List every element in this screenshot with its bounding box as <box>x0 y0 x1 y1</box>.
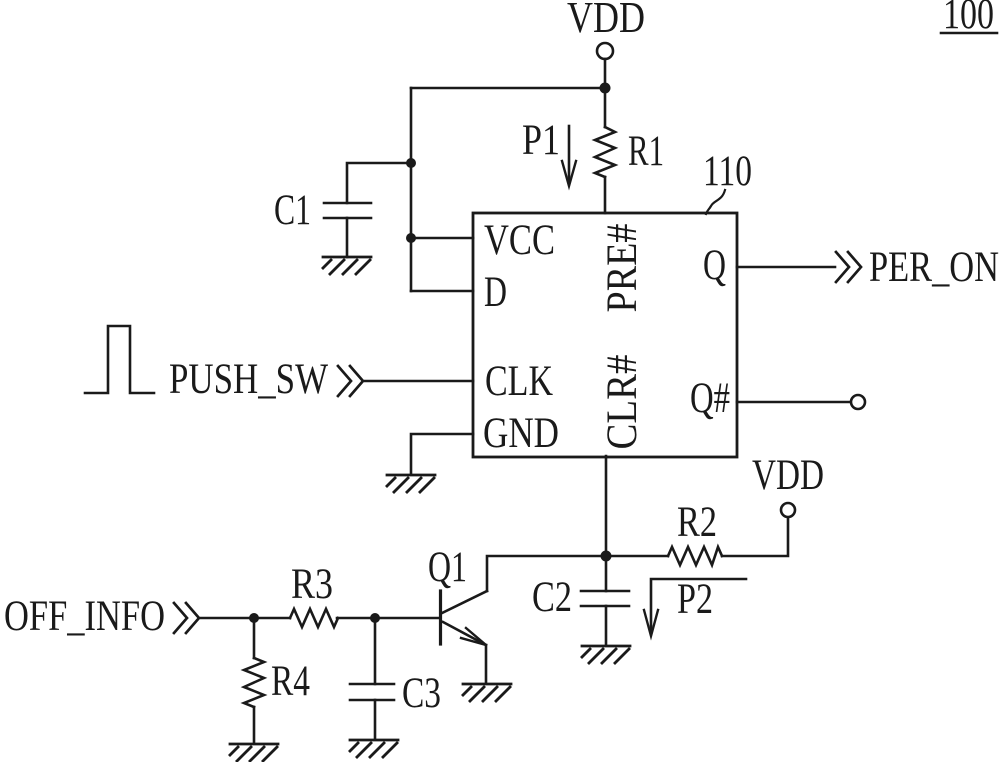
net OFF_INFO <box>4 593 165 640</box>
capacitor C3 <box>374 618 377 684</box>
transistor Q1 <box>439 591 442 644</box>
resistor R1 <box>604 88 607 127</box>
IC 110 D flip-flop box <box>473 213 737 457</box>
junction (VDD rail / R1 top) <box>600 83 611 94</box>
svg-text:OFF_INFO: OFF_INFO <box>4 593 165 640</box>
wire CLR# down <box>605 456 608 556</box>
pin PRE# <box>599 224 646 313</box>
svg-text:PER_ON: PER_ON <box>869 244 999 291</box>
wire base <box>375 617 439 620</box>
pin GND <box>483 410 559 457</box>
resistor R2 <box>668 547 722 565</box>
input chevron PUSH_SW <box>338 366 363 396</box>
wire Q output <box>737 266 835 269</box>
pulse waveform symbol <box>85 326 154 393</box>
svg-text:Q1: Q1 <box>428 544 467 591</box>
resistor R3 <box>290 609 338 627</box>
svg-text:R2: R2 <box>677 499 717 546</box>
svg-text:C1: C1 <box>274 187 311 234</box>
svg-text:C2: C2 <box>532 574 572 621</box>
pin CLR# <box>599 355 646 450</box>
wire R2 to VDD terminal <box>722 517 788 556</box>
svg-text:Q#: Q# <box>690 375 730 422</box>
svg-text:P2: P2 <box>677 576 713 623</box>
svg-text:CLR#: CLR# <box>599 355 646 450</box>
svg-text:GND: GND <box>483 410 559 457</box>
net PUSH_SW <box>169 356 328 403</box>
wire VDD terminal to top rail <box>604 59 607 86</box>
svg-text:C3: C3 <box>402 670 441 717</box>
wire VCC stub <box>411 237 473 240</box>
svg-text:R3: R3 <box>291 561 333 608</box>
svg-text:R4: R4 <box>271 658 310 705</box>
svg-text:Q: Q <box>703 242 726 289</box>
wire tap to R3 <box>254 617 290 620</box>
VDD terminal (top) <box>597 43 613 59</box>
wire GND pin to ground <box>411 434 473 474</box>
wire D stub <box>411 290 473 293</box>
capacitor C2 <box>605 556 608 591</box>
svg-text:110: 110 <box>703 148 752 195</box>
wire C1 branch <box>347 163 411 203</box>
resistor R4 <box>253 618 256 658</box>
svg-text:P1: P1 <box>522 117 560 164</box>
svg-text:VCC: VCC <box>484 217 555 264</box>
ground (R4) <box>230 744 278 761</box>
wire collector to junction <box>487 556 606 591</box>
wire emitter to ground <box>485 645 488 683</box>
net label 100 <box>943 0 994 38</box>
ground (C1) <box>323 257 371 274</box>
junction (VCC branch) <box>406 233 416 243</box>
svg-text:VDD: VDD <box>752 452 824 499</box>
wire junction to R2 <box>606 555 668 558</box>
svg-text:PRE#: PRE# <box>599 224 646 313</box>
VDD terminal (right) <box>781 503 795 517</box>
current arrow P2 <box>651 579 746 632</box>
ground (GND pin) <box>387 475 435 492</box>
capacitor C1 <box>324 202 371 205</box>
pin CLK <box>485 358 553 405</box>
junction (R4 tap) <box>249 613 259 623</box>
wire top rail <box>411 87 605 90</box>
label 110 with leader <box>703 148 752 195</box>
wire R3 to C3 tap <box>337 617 375 620</box>
svg-text:D: D <box>484 269 507 316</box>
svg-text:VDD: VDD <box>567 0 645 42</box>
svg-text:CLK: CLK <box>485 358 553 405</box>
pin VCC <box>484 217 555 264</box>
input chevron OFF_INFO <box>174 603 199 633</box>
power net VDD (top) <box>567 0 645 42</box>
current arrow P1 <box>522 117 560 164</box>
svg-text:R1: R1 <box>628 128 664 175</box>
junction (CLR#/C2/R2/collector) <box>601 551 612 562</box>
power net VDD (right) <box>752 452 824 499</box>
ground (C3) <box>350 740 398 757</box>
junction (C1 branch) <box>406 158 416 168</box>
net PER_ON <box>869 244 999 291</box>
pin Q# <box>690 375 730 422</box>
wire OFF_INFO to R4 tap <box>201 617 254 620</box>
output chevron PER_ON <box>836 252 861 282</box>
pin D <box>484 269 507 316</box>
ground (C2) <box>582 646 630 663</box>
svg-text:PUSH_SW: PUSH_SW <box>169 356 328 403</box>
junction (C3 / base tap) <box>370 613 380 623</box>
wire left rail <box>410 88 413 291</box>
terminal Q# (open) <box>851 395 865 409</box>
ground (Q1 emitter) <box>463 684 511 701</box>
pin Q <box>703 242 726 289</box>
wire Q# output <box>737 401 851 404</box>
wire PUSH_SW to CLK pin <box>365 380 473 383</box>
